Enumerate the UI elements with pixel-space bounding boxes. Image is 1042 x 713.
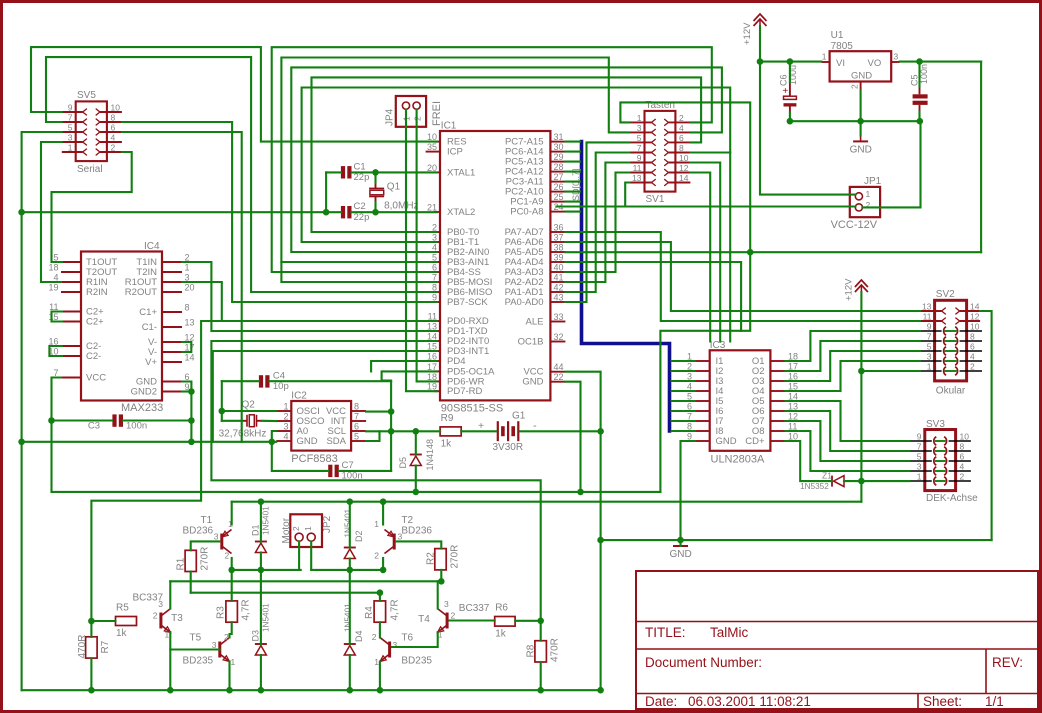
- wire bus to IC3 I2: [672, 370, 695, 372]
- wire C7 right: [339, 470, 391, 472]
- wire O2 to SV2 pin7: [785, 341, 920, 371]
- wire T1 base to R1: [191, 541, 220, 550]
- wire T6 emitter down: [379, 662, 381, 691]
- svg-text:4: 4: [283, 432, 288, 442]
- capacitor C7 100n: [328, 465, 332, 477]
- junction: [857, 118, 864, 125]
- capacitor C6 100u: [784, 96, 797, 99]
- svg-text:T6: T6: [401, 633, 413, 644]
- wire SV1 pin10 to bus: [690, 163, 720, 342]
- svg-text:1: 1: [927, 362, 932, 372]
- svg-text:R1: R1: [176, 557, 187, 570]
- jumper JP1 VCC-12V: [850, 187, 880, 217]
- capacitor C1 22p: [341, 166, 345, 178]
- resistor R8 470R: [535, 641, 547, 662]
- diode D2 1N5401: [344, 549, 355, 559]
- svg-text:30: 30: [554, 142, 564, 152]
- svg-text:SDA: SDA: [326, 436, 346, 447]
- svg-text:6: 6: [960, 452, 965, 462]
- wire PC5 bus entry: [565, 161, 580, 163]
- wire Q2 column: [221, 381, 223, 421]
- svg-text:7805: 7805: [831, 41, 854, 52]
- wire D4 bottom: [349, 655, 351, 690]
- svg-text:ICP: ICP: [447, 147, 463, 158]
- svg-text:270R: 270R: [200, 547, 211, 571]
- transistor T4 BC337: [446, 613, 449, 629]
- svg-text:PB7-SCK: PB7-SCK: [447, 297, 488, 308]
- svg-text:VO: VO: [868, 58, 882, 69]
- wire bottom GND rail: [22, 689, 601, 691]
- svg-text:6: 6: [111, 123, 116, 133]
- diode D5 1N4148: [410, 456, 421, 466]
- svg-text:1N4148: 1N4148: [425, 439, 435, 471]
- svg-text:7: 7: [354, 412, 359, 422]
- svg-text:PCF8583: PCF8583: [291, 453, 337, 465]
- svg-text:D5: D5: [398, 457, 408, 469]
- svg-text:18: 18: [48, 263, 58, 273]
- wire T3 emitter down: [169, 632, 171, 690]
- wire PA1 to SV1 pin7: [565, 153, 629, 293]
- svg-text:C1+: C1+: [139, 307, 157, 318]
- wire D5 top: [415, 431, 417, 454]
- +12V supply symbol (right): [855, 285, 868, 292]
- transistor T2 BD236: [393, 534, 396, 550]
- svg-text:SV5: SV5: [77, 90, 96, 101]
- svg-text:T5: T5: [190, 633, 202, 644]
- svg-text:11: 11: [633, 163, 642, 173]
- svg-text:31: 31: [554, 132, 564, 142]
- svg-text:Document Number:: Document Number:: [645, 655, 762, 670]
- svg-text:GND: GND: [851, 71, 872, 82]
- svg-text:3V30R: 3V30R: [493, 442, 524, 453]
- svg-text:43: 43: [554, 293, 564, 303]
- svg-text:REV:: REV:: [992, 655, 1023, 670]
- wire rail y570 right: [311, 569, 383, 571]
- svg-text:5: 5: [927, 342, 932, 352]
- wire T4 emitter to T6 base: [392, 632, 438, 647]
- svg-text:R5: R5: [116, 603, 129, 614]
- junction: [377, 687, 384, 694]
- wire y540 GND run: [601, 539, 992, 541]
- svg-text:SV2: SV2: [936, 289, 955, 300]
- wire C1 left: [326, 171, 341, 173]
- svg-text:11: 11: [923, 312, 932, 322]
- wire PD0 to R5 chain: [91, 321, 437, 637]
- junction: [438, 578, 445, 585]
- svg-text:+: +: [478, 421, 484, 432]
- svg-text:Serial: Serial: [77, 164, 103, 175]
- svg-text:8,0MHz: 8,0MHz: [384, 201, 418, 212]
- svg-text:1N5401: 1N5401: [344, 603, 353, 632]
- svg-text:BC337: BC337: [133, 593, 164, 604]
- wire O4 to SV2 pin3: [785, 361, 920, 391]
- IC IC2 PCF8583: [291, 401, 351, 451]
- wire D2 top: [349, 502, 351, 548]
- junction: [747, 249, 754, 256]
- wire GND y212 to crystal caps: [22, 211, 327, 213]
- svg-text:44: 44: [554, 362, 564, 372]
- svg-text:Q1: Q1: [387, 182, 401, 193]
- wire PC7 bus entry: [565, 141, 580, 143]
- crystal Q2 32.768kHz: [246, 415, 248, 427]
- junction: [380, 567, 387, 574]
- junction: [597, 428, 604, 435]
- wire PA3 to SV1 pin11: [565, 173, 629, 273]
- wire C5 top: [918, 62, 920, 87]
- svg-text:T4: T4: [418, 614, 430, 625]
- svg-text:2: 2: [970, 362, 975, 372]
- svg-text:8: 8: [679, 143, 684, 153]
- svg-text:12: 12: [679, 163, 689, 173]
- svg-text:IC4: IC4: [144, 241, 160, 252]
- connector SV2 (Okular): [935, 300, 967, 381]
- svg-text:8: 8: [185, 303, 190, 313]
- ground symbol (at U1): [860, 135, 862, 141]
- svg-text:C2-: C2-: [86, 351, 101, 362]
- wire PA6 to SV2 pin13: [565, 242, 920, 311]
- svg-text:1: 1: [374, 657, 379, 667]
- svg-text:13: 13: [922, 302, 932, 312]
- capacitor C5 100n: [913, 94, 928, 98]
- wire +12V right stem: [860, 292, 862, 502]
- resistor R1 270R: [185, 550, 196, 571]
- svg-text:2: 2: [866, 200, 871, 210]
- svg-text:IC1: IC1: [441, 121, 457, 132]
- wire O5 to SV3 pin9: [785, 401, 909, 441]
- svg-text:39: 39: [554, 253, 564, 263]
- svg-text:R3: R3: [216, 606, 227, 619]
- wire R3 top: [231, 570, 233, 601]
- wire PB5 to SV1 pin3 via y57.5: [281, 58, 629, 283]
- wire T4 base to R6: [450, 619, 495, 621]
- wire Q2 left link: [222, 420, 242, 422]
- svg-text:C3: C3: [88, 421, 100, 432]
- wire PA0 to SV1 pin5: [565, 142, 629, 302]
- jumper JP4 FREI: [396, 96, 426, 127]
- wire IC4 GND pin6: [182, 382, 191, 442]
- junction: [219, 408, 226, 415]
- svg-text:D4: D4: [354, 630, 364, 642]
- svg-text:1: 1: [283, 402, 288, 412]
- junction: [787, 118, 794, 125]
- svg-text:1k: 1k: [116, 628, 128, 639]
- wire PA4 drop: [565, 262, 741, 331]
- wire IC4 GND2 pin9: [182, 390, 191, 392]
- junction: [188, 417, 195, 424]
- wire D3 column: [260, 570, 262, 644]
- wire SV5 pin8 to PB7: [122, 122, 437, 302]
- wire C5 bottom: [918, 112, 920, 122]
- junction: [167, 687, 174, 694]
- wire Q2 right to OSCO: [262, 420, 276, 422]
- svg-text:GND: GND: [716, 436, 737, 447]
- svg-text:D2: D2: [354, 530, 364, 542]
- wire SV1 pin13 to y206.5: [625, 183, 629, 207]
- svg-text:R2: R2: [426, 552, 437, 565]
- wire D4 column: [349, 570, 351, 644]
- svg-text:-: -: [533, 420, 537, 432]
- svg-text:7: 7: [68, 113, 73, 123]
- wire SV5 pin6 GND drop: [122, 132, 242, 442]
- wire Q1 bottom: [374, 202, 376, 212]
- svg-text:PD7-RD: PD7-RD: [447, 386, 483, 397]
- wire R8 bottom: [540, 662, 542, 690]
- wire U1 VO right: [900, 61, 982, 63]
- svg-text:3: 3: [214, 532, 219, 542]
- svg-text:Q2: Q2: [242, 400, 256, 411]
- wire V- loop: [182, 342, 191, 352]
- svg-text:10: 10: [111, 103, 121, 113]
- wire C1 left drop: [325, 172, 327, 212]
- svg-text:6: 6: [970, 342, 975, 352]
- svg-text:PC0-A8: PC0-A8: [510, 207, 543, 218]
- diode D4 1N5401: [344, 646, 355, 656]
- svg-text:1k: 1k: [495, 629, 507, 640]
- jumper JP2 Motor: [290, 514, 322, 547]
- resistor R7 470R: [86, 637, 98, 658]
- svg-text:IC3: IC3: [710, 340, 726, 351]
- svg-text:33: 33: [554, 312, 564, 322]
- svg-text:C1: C1: [354, 161, 366, 172]
- resistor R9 1k: [440, 427, 461, 436]
- junction: [917, 118, 924, 125]
- svg-text:1: 1: [917, 472, 922, 482]
- svg-text:06.03.2001 11:08:21: 06.03.2001 11:08:21: [688, 694, 811, 709]
- svg-text:VI: VI: [836, 58, 845, 69]
- svg-text:470R: 470R: [549, 638, 560, 662]
- svg-text:VCC: VCC: [86, 373, 106, 384]
- svg-text:Date:: Date:: [645, 694, 677, 709]
- voltage regulator U1 7805: [830, 51, 892, 81]
- svg-text:VCC-12V: VCC-12V: [831, 219, 878, 231]
- svg-text:1: 1: [822, 52, 827, 62]
- svg-text:1: 1: [374, 519, 379, 529]
- svg-text:JP2: JP2: [322, 515, 333, 533]
- junction: [597, 687, 604, 694]
- junction: [347, 567, 354, 574]
- wire SV2 pin1 feed: [861, 370, 920, 372]
- wire SV5 pin2 to T1OUT: [52, 152, 132, 262]
- svg-text:19: 19: [48, 283, 58, 293]
- connector SV3 (DEK-Achse): [925, 430, 956, 491]
- wire JP1 pin2 up to C5 rail: [862, 121, 920, 207]
- svg-text:T2: T2: [401, 515, 413, 526]
- svg-text:5: 5: [354, 432, 359, 442]
- junction: [372, 209, 379, 216]
- wire y206.5 GND link to JP1 pin2: [557, 205, 856, 207]
- svg-text:25: 25: [554, 192, 564, 202]
- svg-text:27: 27: [554, 172, 564, 182]
- svg-text:8: 8: [960, 442, 965, 452]
- wire PC4 bus entry: [565, 171, 580, 173]
- svg-text:+12V: +12V: [742, 22, 753, 45]
- svg-text:7: 7: [637, 143, 642, 153]
- junction: [347, 498, 354, 505]
- IC IC4 MAX233: [81, 252, 162, 401]
- wire Q1 top: [374, 172, 376, 183]
- svg-text:22p: 22p: [354, 212, 370, 223]
- svg-text:2: 2: [225, 551, 230, 561]
- capacitor C4 10p: [259, 375, 263, 387]
- svg-text:SD[0..7]: SD[0..7]: [571, 168, 581, 201]
- svg-text:T3: T3: [171, 613, 183, 624]
- svg-text:20: 20: [185, 283, 195, 293]
- svg-text:3: 3: [68, 133, 73, 143]
- resistor R6 1k: [495, 617, 515, 627]
- svg-text:7: 7: [927, 332, 932, 342]
- wire C2- loop: [49, 346, 62, 356]
- svg-text:U1: U1: [831, 30, 844, 41]
- svg-text:R9: R9: [441, 413, 454, 424]
- wire bus to IC3 I6: [672, 410, 695, 412]
- wire O3 to SV2 pin5: [785, 351, 920, 381]
- svg-text:9: 9: [637, 153, 642, 163]
- svg-text:32: 32: [554, 332, 564, 342]
- junction: [380, 498, 387, 505]
- wire y592.7 run: [191, 592, 380, 594]
- junction: [413, 428, 420, 435]
- wire IC2 pin6 to R9 row: [366, 430, 440, 432]
- wire IC4 VCC to +5 rail: [52, 378, 661, 492]
- bus SD[0..7]: [582, 142, 670, 431]
- svg-text:R7: R7: [100, 640, 111, 653]
- junction: [226, 687, 233, 694]
- svg-text:MAX233: MAX233: [121, 402, 163, 414]
- junction: [258, 498, 265, 505]
- svg-text:GND: GND: [297, 436, 318, 447]
- svg-text:5: 5: [637, 133, 642, 143]
- wire IC2 pin5 jog: [366, 431, 379, 441]
- wire C3 row right: [123, 419, 191, 421]
- ground symbol (at IC3): [680, 540, 682, 546]
- svg-text:9: 9: [917, 432, 922, 442]
- wire O8 to SV3 pin3: [785, 431, 909, 471]
- svg-text:5: 5: [68, 123, 73, 133]
- svg-text:4,7R: 4,7R: [240, 599, 251, 620]
- svg-text:GND: GND: [522, 377, 543, 388]
- svg-text:XTAL2: XTAL2: [447, 207, 475, 218]
- wire PD2 to R6 chain: [211, 341, 540, 621]
- diode D1 1N5401: [255, 543, 266, 553]
- wire PC1 bus entry: [565, 201, 580, 203]
- wire R7 bottom: [90, 658, 92, 690]
- svg-text:2: 2: [291, 526, 301, 531]
- svg-text:1: 1: [185, 263, 190, 273]
- junction: [677, 537, 684, 544]
- wire IC2 pin1 to Q2 dot: [222, 410, 276, 412]
- wire PC2 bus entry: [565, 191, 580, 193]
- wire PC3 bus entry: [565, 181, 580, 183]
- IC IC1 90S8515-SS: [440, 131, 550, 400]
- wire PC6 bus entry: [565, 151, 580, 153]
- svg-text:BD236: BD236: [401, 526, 432, 537]
- junction: [537, 687, 544, 694]
- svg-text:36: 36: [554, 223, 564, 233]
- svg-text:8: 8: [111, 113, 116, 123]
- wire bus to IC3 I7: [672, 420, 695, 422]
- svg-text:3: 3: [917, 462, 922, 472]
- wire SV5 pin7 to PB6: [46, 57, 437, 292]
- wire D1 bottom: [260, 553, 262, 570]
- wire R6 right to R8 column: [515, 620, 541, 622]
- wire PB0 to SV1 pin6 via y77.4: [312, 77, 702, 232]
- wire +12V stem to JP1 pin1: [760, 26, 855, 195]
- wire IC4 T1IN to PD1: [182, 262, 437, 331]
- capacitor C2 22p: [341, 206, 345, 218]
- svg-text:2: 2: [283, 412, 288, 422]
- wire D1 top: [260, 502, 262, 542]
- wire T2 collector up: [382, 502, 384, 525]
- wire PC0 bus entry: [565, 211, 580, 213]
- svg-text:1: 1: [231, 657, 236, 667]
- junction: [916, 58, 923, 65]
- svg-text:8: 8: [354, 402, 359, 412]
- svg-text:2: 2: [850, 84, 860, 89]
- wire PB2 to SV1 pin4 via y67.4: [291, 67, 722, 252]
- wire U1 GND pin down: [860, 90, 862, 135]
- wire IC2 pin8: [366, 411, 391, 413]
- resistor R4 4.7R: [374, 601, 386, 622]
- wire JP4 pin2 to PD6: [417, 110, 437, 382]
- junction: [48, 417, 55, 424]
- svg-text:6: 6: [679, 133, 684, 143]
- wire C6 bottom: [789, 113, 791, 122]
- wire +5 rail riser to SV1 pin1 loop: [620, 102, 750, 492]
- svg-text:JP4: JP4: [385, 108, 396, 126]
- svg-text:35: 35: [427, 142, 437, 152]
- wire U1 VO drop: [980, 62, 982, 253]
- wire PD3 drop: [213, 351, 437, 442]
- junction: [258, 567, 265, 574]
- wire SV5 pin9 to RES: [31, 47, 437, 142]
- wire PA2 to SV1 pin9: [565, 163, 629, 283]
- junction: [88, 687, 95, 694]
- svg-text:270R: 270R: [450, 545, 461, 569]
- svg-text:3: 3: [283, 422, 288, 432]
- svg-text:R2IN: R2IN: [86, 287, 108, 298]
- wire SV2 pin14 to y540: [980, 311, 992, 540]
- wire PB4 to SV1 pin2 via y47.2: [272, 47, 712, 272]
- resistor R5 1k: [116, 617, 137, 626]
- svg-text:R2OUT: R2OUT: [125, 287, 157, 298]
- junction: [228, 567, 235, 574]
- wire C3 row left: [52, 419, 113, 421]
- capacitor C3 100n: [112, 414, 116, 426]
- battery G1 3V30R: [497, 421, 499, 441]
- transistor T3 BC337: [159, 613, 162, 629]
- svg-text:41: 41: [554, 273, 564, 283]
- wire T5 emitter down: [228, 662, 230, 691]
- wire y252 5V line: [565, 251, 981, 253]
- svg-text:D1: D1: [250, 524, 260, 536]
- svg-text:C2: C2: [354, 201, 366, 212]
- svg-text:BC337: BC337: [459, 603, 490, 614]
- wire CD+ to Z1: [785, 441, 831, 481]
- wire IC3 GND pin9 down: [681, 441, 695, 546]
- svg-text:2: 2: [111, 143, 116, 153]
- IC IC3 ULN2803A: [710, 350, 771, 451]
- svg-text:8: 8: [970, 332, 975, 342]
- svg-text:6: 6: [354, 422, 359, 432]
- svg-text:PA0-AD0: PA0-AD0: [505, 297, 544, 308]
- wire D3 bottom: [260, 655, 262, 690]
- svg-text:1: 1: [303, 526, 313, 531]
- svg-text:4: 4: [970, 352, 975, 362]
- svg-text:BD235: BD235: [401, 656, 432, 667]
- svg-text:FREI: FREI: [431, 101, 443, 126]
- svg-text:1: 1: [68, 143, 73, 153]
- wire bus to IC3 I5: [672, 400, 695, 402]
